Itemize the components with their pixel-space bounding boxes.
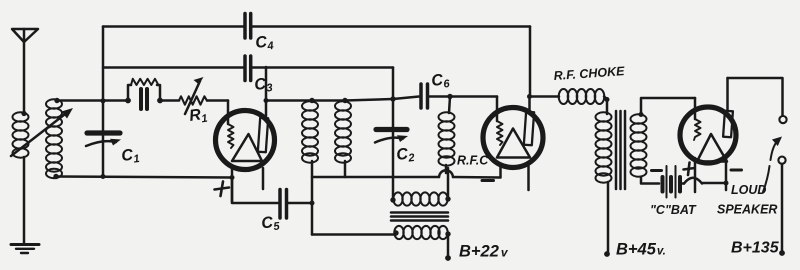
svg-text:LOUD: LOUD <box>731 183 766 197</box>
svg-text:B+135: B+135 <box>731 240 780 257</box>
svg-text:R.F.C: R.F.C <box>457 154 489 168</box>
svg-text:SPEAKER: SPEAKER <box>717 203 777 217</box>
svg-text:"C"BAT: "C"BAT <box>650 203 697 217</box>
svg-text:B+22v: B+22v <box>459 243 509 261</box>
